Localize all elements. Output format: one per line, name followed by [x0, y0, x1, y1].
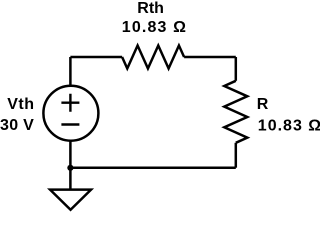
ground symbol [50, 190, 91, 210]
svg-text:Vth: Vth [7, 96, 34, 113]
wire bottom rail [70, 167, 235, 170]
svg-text:30 V: 30 V [0, 117, 34, 134]
svg-text:10.83 Ω: 10.83 Ω [258, 117, 320, 134]
wire top rail left lead [70, 56, 122, 59]
plus sign inside source [61, 94, 79, 112]
svg-text:10.83 Ω: 10.83 Ω [122, 19, 187, 36]
resistor Rth (horizontal zigzag) [122, 46, 184, 69]
svg-text:Rth: Rth [137, 0, 164, 17]
wire top-left vertical (source top to top rail) [69, 57, 72, 86]
resistor R (vertical zigzag) [224, 81, 247, 143]
minus sign inside source [61, 123, 79, 125]
wire top rail right lead [184, 56, 236, 59]
wire right vertical lower lead [235, 143, 238, 168]
wire source bottom to ground [69, 141, 72, 190]
voltage source V1 circle [43, 86, 98, 141]
svg-text:R: R [257, 96, 269, 113]
wire right vertical upper lead [235, 57, 238, 81]
junction dot [67, 165, 73, 171]
